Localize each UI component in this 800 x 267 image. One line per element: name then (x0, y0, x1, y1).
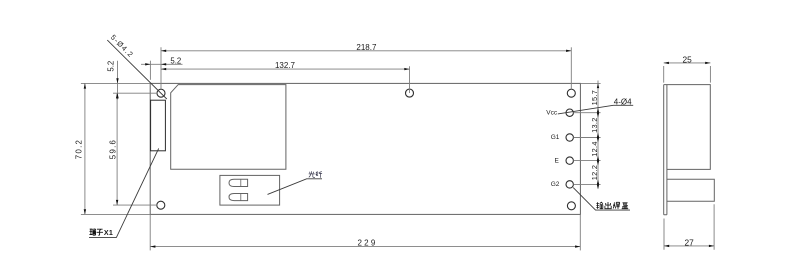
svg-text:12.2: 12.2 (590, 165, 599, 181)
svg-text:218.7: 218.7 (356, 43, 377, 52)
svg-text:132.7: 132.7 (275, 61, 296, 70)
svg-text:25: 25 (682, 55, 692, 65)
svg-text:Vcc: Vcc (546, 109, 558, 116)
svg-text:229: 229 (358, 239, 378, 248)
svg-text:G1: G1 (551, 134, 560, 141)
svg-text:13.2: 13.2 (590, 117, 599, 133)
svg-text:59.6: 59.6 (109, 139, 118, 159)
svg-text:12.4: 12.4 (590, 141, 599, 157)
svg-text:G2: G2 (551, 181, 560, 188)
svg-text:70.2: 70.2 (75, 139, 84, 159)
svg-text:4-Ø4: 4-Ø4 (614, 98, 632, 107)
svg-text:X1: X1 (104, 229, 113, 237)
svg-text:15.7: 15.7 (590, 90, 599, 106)
svg-text:E: E (555, 157, 560, 164)
svg-text:27: 27 (684, 238, 694, 248)
svg-text:5.2: 5.2 (170, 56, 181, 65)
svg-text:5.2: 5.2 (106, 61, 115, 72)
